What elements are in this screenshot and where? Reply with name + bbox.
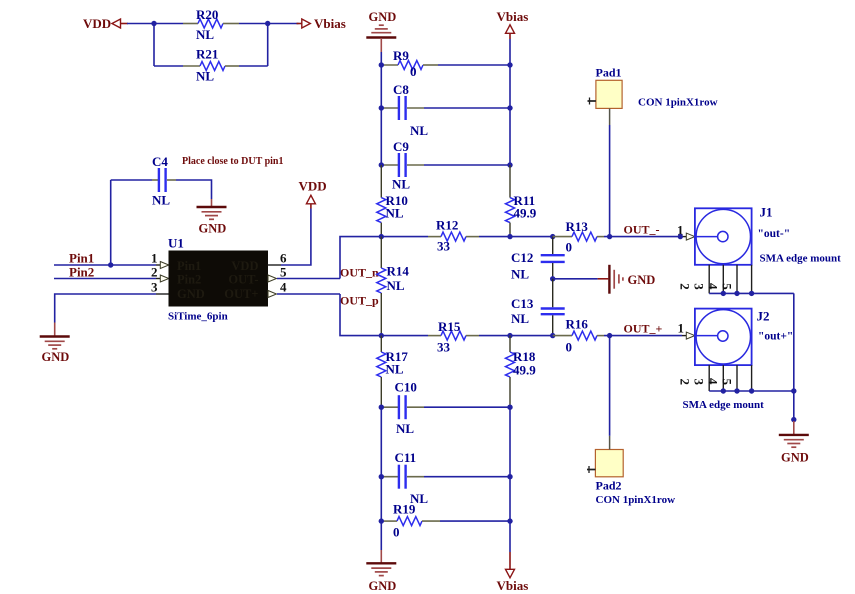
- svg-text:33: 33: [437, 340, 451, 355]
- svg-text:2: 2: [678, 379, 693, 386]
- wire right rail C8-C9: [509, 108, 511, 165]
- wire left rail R9-C8: [380, 65, 382, 108]
- wire J1 ground bus: [709, 292, 794, 294]
- node C9 right: [507, 162, 512, 167]
- wire R9 to right rail: [438, 64, 510, 66]
- svg-text:NL: NL: [387, 278, 405, 293]
- J1 pin 3: [722, 265, 724, 294]
- J1 pin 2: [708, 265, 710, 294]
- wire right rail C10-C11: [509, 407, 511, 477]
- svg-text:3: 3: [151, 280, 158, 295]
- pin 1 arrow (J2): [686, 332, 695, 339]
- J1 pin 4: [736, 265, 738, 294]
- port Vbias (top-left): [297, 16, 346, 31]
- resistor R20: [183, 7, 239, 42]
- svg-text:C9: C9: [393, 139, 409, 154]
- pin 1 arrow: [160, 262, 169, 269]
- svg-text:CON 1pinX1row: CON 1pinX1row: [596, 494, 676, 506]
- node Pad2 junction: [607, 333, 612, 338]
- svg-text:33: 33: [437, 239, 451, 254]
- svg-text:4: 4: [280, 280, 287, 295]
- wire C4 left down to Pin1 net: [110, 180, 112, 265]
- svg-text:R14: R14: [387, 264, 410, 279]
- node C8 right: [507, 105, 512, 110]
- svg-text:C4: C4: [152, 154, 168, 169]
- resistor R10: [377, 165, 408, 237]
- svg-text:U1: U1: [168, 236, 184, 251]
- svg-text:GND: GND: [42, 350, 70, 364]
- svg-text:GND: GND: [369, 579, 397, 593]
- svg-text:3: 3: [692, 283, 707, 290]
- ground (top of ladder, flipped): [366, 10, 396, 52]
- J2 pin 4: [736, 365, 738, 391]
- connector Pad1: [588, 66, 718, 126]
- svg-text:R20: R20: [196, 7, 218, 22]
- svg-text:5: 5: [720, 379, 735, 386]
- J1 pin 5: [751, 265, 753, 294]
- svg-text:C10: C10: [395, 380, 417, 395]
- svg-text:SiTime_6pin: SiTime_6pin: [168, 311, 228, 323]
- svg-text:Place close to DUT pin1: Place close to DUT pin1: [182, 156, 283, 167]
- svg-text:C8: C8: [393, 82, 409, 97]
- node C12 top: [550, 234, 555, 239]
- node C10 right: [507, 405, 512, 410]
- wire pin4 (OUT_p): [277, 293, 340, 295]
- resistor R11: [506, 165, 537, 237]
- svg-text:OUT_-: OUT_-: [624, 223, 660, 237]
- wire Pad2 to OUT_+: [609, 336, 611, 436]
- node C13 bottom: [550, 333, 555, 338]
- svg-text:GND: GND: [628, 273, 656, 287]
- port Vbias (top of ladder): [497, 9, 529, 39]
- node J2 bus pins: [721, 388, 726, 393]
- wire R16 to J2 pin1: [604, 335, 682, 337]
- ground (J1/J2 shield): [779, 421, 809, 465]
- svg-text:C12: C12: [511, 250, 533, 265]
- node between C12 and C13: [550, 276, 555, 281]
- wire right rail R9-C8: [509, 65, 511, 108]
- node C4/Pin1 junction: [108, 262, 113, 267]
- svg-text:NL: NL: [196, 27, 214, 42]
- svg-text:C11: C11: [395, 450, 417, 465]
- wire VDD to R20 left node: [127, 23, 183, 25]
- node right of R20: [265, 21, 270, 26]
- node C11 right: [507, 474, 512, 479]
- svg-text:Pin1: Pin1: [69, 251, 94, 266]
- wire OUT_p down to bottom rail: [340, 294, 381, 336]
- wire left rail C8-C9: [380, 108, 382, 165]
- IC U1 SiTime_6pin: [168, 236, 268, 323]
- wire top GND to R9 row: [380, 52, 382, 65]
- svg-text:49.9: 49.9: [513, 363, 536, 378]
- wire R19 to right rail: [440, 520, 510, 522]
- wire R20 to Vbias: [239, 23, 299, 25]
- wire right rail C11-R19: [509, 477, 511, 521]
- svg-text:Pin2: Pin2: [69, 265, 94, 280]
- pin 1 arrow (J1): [686, 233, 695, 240]
- svg-text:J2: J2: [757, 309, 770, 324]
- resistor R17: [377, 336, 409, 408]
- svg-text:Vbias: Vbias: [497, 9, 529, 24]
- port VDD (top-left): [83, 16, 128, 31]
- wire C11 to right rail: [424, 476, 510, 478]
- node C10 left: [379, 405, 384, 410]
- svg-text:GND: GND: [199, 222, 227, 236]
- wire Pin1: [54, 264, 156, 266]
- connector Pad2: [587, 436, 675, 506]
- node bottom rail left: [379, 333, 384, 338]
- node R9 left: [379, 62, 384, 67]
- resistor R16: [553, 317, 604, 355]
- wire J1 bus down to J2 bus: [793, 293, 795, 391]
- svg-text:4: 4: [706, 378, 721, 385]
- svg-text:4: 4: [706, 283, 721, 290]
- node above GND: [791, 417, 796, 422]
- wire pin5 (OUT_n): [277, 278, 340, 280]
- resistor R18: [506, 336, 537, 408]
- wire R21 row left: [154, 65, 183, 67]
- ground (bottom of ladder): [366, 550, 396, 593]
- wire pin3 to ground: [156, 293, 169, 295]
- svg-text:GND: GND: [781, 451, 809, 465]
- port VDD (above U1): [299, 179, 327, 209]
- svg-text:R21: R21: [196, 47, 218, 62]
- resistor R9: [381, 48, 438, 79]
- wire bottom rail to R15: [381, 335, 428, 337]
- svg-text:0: 0: [393, 525, 400, 540]
- svg-text:Pin2: Pin2: [177, 273, 201, 287]
- resistor R14: [377, 237, 410, 336]
- svg-text:1: 1: [678, 321, 685, 336]
- svg-text:NL: NL: [392, 177, 410, 192]
- svg-text:OUT-: OUT-: [228, 273, 258, 287]
- node Pad1 junction: [607, 234, 612, 239]
- resistor R15: [428, 319, 479, 355]
- svg-text:C13: C13: [511, 296, 534, 311]
- wire top rail to R12: [381, 236, 428, 238]
- wire left rail to bottom GND: [380, 521, 382, 550]
- svg-text:2: 2: [678, 283, 693, 290]
- resistor R21: [183, 47, 239, 84]
- connector J2 SMA: [683, 309, 794, 412]
- svg-text:NL: NL: [386, 206, 404, 221]
- J2 pin 5: [751, 365, 753, 391]
- pin 5 arrow: [268, 275, 277, 282]
- svg-text:6: 6: [280, 251, 287, 266]
- resistor R12: [428, 218, 479, 254]
- svg-text:SMA edge mount: SMA edge mount: [683, 399, 765, 411]
- svg-text:Vbias: Vbias: [314, 16, 346, 31]
- resistor R19: [381, 502, 440, 540]
- wire C8 to right rail: [424, 107, 510, 109]
- wire right branch down: [267, 24, 269, 67]
- svg-text:5: 5: [280, 265, 287, 280]
- svg-text:0: 0: [566, 240, 573, 255]
- svg-text:2: 2: [151, 265, 158, 280]
- svg-text:R13: R13: [566, 219, 589, 234]
- wire pin6 to VDD port: [268, 264, 282, 266]
- J1 pin labels 2 3 4 5: [678, 283, 735, 290]
- svg-text:NL: NL: [511, 267, 529, 282]
- svg-text:NL: NL: [511, 311, 529, 326]
- capacitor C9: [381, 139, 424, 192]
- wire right rail to bottom Vbias: [509, 521, 511, 552]
- pin 4 arrow: [268, 291, 277, 298]
- wire left rail C11-R19: [380, 477, 382, 521]
- svg-text:CON 1pinX1row: CON 1pinX1row: [638, 97, 718, 109]
- resistor R13: [553, 219, 604, 255]
- node R19 right: [507, 518, 512, 523]
- svg-text:NL: NL: [410, 123, 428, 138]
- svg-text:OUT+: OUT+: [224, 287, 258, 301]
- svg-text:0: 0: [410, 64, 417, 79]
- capacitor C10: [381, 380, 424, 437]
- ground (sideways, C12/C13 midpoint): [598, 265, 656, 294]
- capacitor C11: [381, 450, 428, 506]
- svg-text:0: 0: [566, 340, 573, 355]
- pin 2 arrow: [160, 275, 169, 282]
- node top rail left: [379, 234, 384, 239]
- svg-text:VDD: VDD: [231, 259, 258, 273]
- svg-text:GND: GND: [369, 10, 397, 24]
- svg-text:R12: R12: [436, 218, 458, 233]
- wire J2 ground bus: [709, 390, 794, 392]
- svg-text:SMA edge mount: SMA edge mount: [760, 253, 842, 265]
- wire R13 to J1 pin1: [604, 236, 682, 238]
- svg-text:R9: R9: [393, 48, 409, 63]
- capacitor C4: [111, 154, 176, 208]
- node C8 left: [379, 105, 384, 110]
- capacitor C8: [381, 82, 428, 138]
- svg-text:VDD: VDD: [299, 179, 327, 194]
- node C11 left: [379, 474, 384, 479]
- svg-text:NL: NL: [386, 362, 404, 377]
- node J1/J2 bus junction: [791, 388, 796, 393]
- svg-text:Vbias: Vbias: [497, 578, 529, 593]
- node R19 left: [379, 518, 384, 523]
- wire C10 to right rail: [424, 406, 510, 408]
- svg-text:R15: R15: [438, 319, 461, 334]
- J2 pin labels 2 3 4 5: [678, 378, 735, 386]
- wire Pin2: [54, 278, 156, 280]
- svg-text:OUT_n: OUT_n: [340, 266, 379, 280]
- svg-text:OUT_p: OUT_p: [340, 294, 379, 308]
- svg-text:"out+": "out+": [758, 331, 793, 343]
- svg-text:"out-": "out-": [758, 228, 791, 240]
- svg-text:R16: R16: [566, 317, 589, 332]
- svg-text:J1: J1: [760, 205, 773, 220]
- ground (U1 pin3): [40, 323, 70, 365]
- svg-text:NL: NL: [396, 421, 414, 436]
- node R9 right: [507, 62, 512, 67]
- J2 pin 3: [722, 365, 724, 391]
- svg-text:OUT_+: OUT_+: [624, 322, 663, 336]
- port Vbias (bottom): [497, 552, 529, 593]
- wire R21 row right: [239, 65, 268, 67]
- node J1 pin1: [678, 234, 683, 239]
- node top rail right: [507, 234, 512, 239]
- wire C4 right to GND: [176, 180, 212, 199]
- svg-text:49.9: 49.9: [514, 206, 537, 221]
- wire left rail C10-C11: [380, 407, 382, 477]
- node left of R20: [151, 21, 156, 26]
- svg-text:R19: R19: [393, 502, 416, 517]
- node bottom rail right: [507, 333, 512, 338]
- wire Vbias to R9 row: [509, 39, 511, 65]
- svg-text:VDD: VDD: [83, 16, 111, 31]
- J2 pin 2: [708, 365, 710, 391]
- wire mid node to GND: [553, 278, 598, 280]
- svg-text:1: 1: [151, 251, 158, 266]
- node C9 left: [379, 162, 384, 167]
- svg-text:Pin1: Pin1: [177, 259, 201, 273]
- wire left branch down: [153, 24, 155, 67]
- svg-text:Pad1: Pad1: [596, 66, 622, 80]
- wire R12 to C12 node: [479, 236, 553, 238]
- svg-text:NL: NL: [196, 69, 214, 84]
- capacitor C13: [511, 279, 565, 336]
- wire bus down to GND: [793, 391, 795, 421]
- wire R15 to C13 node: [479, 335, 553, 337]
- svg-text:NL: NL: [152, 193, 170, 208]
- node J1 bus pins: [721, 291, 726, 296]
- wire C9 to right rail: [424, 164, 510, 166]
- svg-text:Pad2: Pad2: [596, 479, 622, 493]
- wire OUT_n up to top rail: [340, 237, 381, 279]
- svg-text:5: 5: [720, 283, 735, 290]
- svg-text:GND: GND: [177, 287, 205, 301]
- connector J1 SMA: [695, 205, 841, 265]
- capacitor C12: [511, 237, 565, 282]
- svg-text:3: 3: [692, 379, 707, 386]
- ground (C4): [197, 199, 227, 236]
- wire Pad1 to OUT_-: [609, 125, 611, 237]
